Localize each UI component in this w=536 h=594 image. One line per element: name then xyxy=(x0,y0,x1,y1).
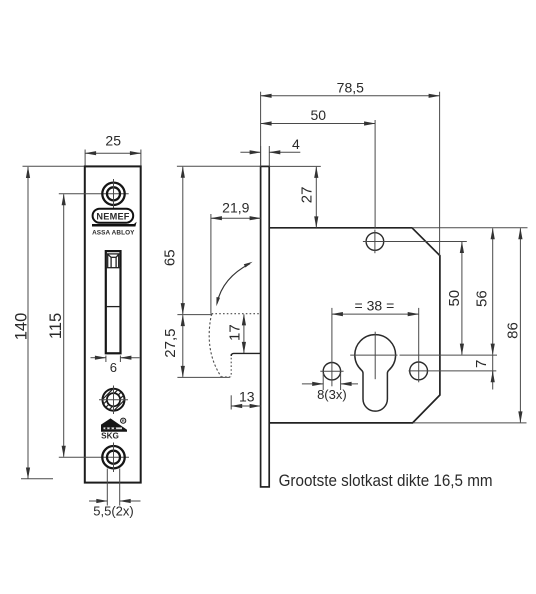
svg-text:4: 4 xyxy=(292,136,300,152)
svg-text:= 38 =: = 38 = xyxy=(355,297,395,313)
dimension 27 (backset top) xyxy=(269,166,321,227)
top fixing hole xyxy=(363,230,467,254)
dimension 86 xyxy=(413,228,527,423)
lock case outline xyxy=(269,228,440,423)
svg-text:56: 56 xyxy=(474,290,491,307)
dimension 17 xyxy=(243,314,245,353)
svg-text:27: 27 xyxy=(299,187,316,204)
svg-text:17: 17 xyxy=(227,324,244,341)
ASSA ABLOY logo bar xyxy=(92,222,137,237)
top screw hole xyxy=(102,179,124,209)
svg-text:21,9: 21,9 xyxy=(222,200,249,216)
faceplate strip side view xyxy=(261,166,270,487)
dimension 65 xyxy=(177,166,261,314)
swing arc double arrow xyxy=(216,262,252,306)
faceplate front outline xyxy=(85,166,141,482)
bottom screw hole xyxy=(102,443,124,473)
dimension 8(3x) xyxy=(302,373,358,390)
svg-text:86: 86 xyxy=(504,322,521,339)
dimension 115 (hole spacing) xyxy=(59,194,129,457)
dimension 13 xyxy=(231,395,260,409)
svg-text:6: 6 xyxy=(110,360,117,375)
euro cylinder profile xyxy=(350,332,397,411)
dimension 4 (faceplate thickness) xyxy=(240,146,300,166)
svg-text:8(3x): 8(3x) xyxy=(317,387,347,402)
dimension 7 xyxy=(492,355,494,389)
latch bolt slot outline xyxy=(106,251,121,353)
svg-text:13: 13 xyxy=(239,388,255,404)
right 8mm hole xyxy=(409,362,497,380)
dimension 56 xyxy=(413,228,528,355)
hatched cylinder hole xyxy=(99,386,128,415)
svg-text:115: 115 xyxy=(47,313,65,339)
dimension 140 (overall height) xyxy=(21,166,84,479)
NEMEF logo xyxy=(93,209,134,223)
latch bolt detail lines xyxy=(106,254,121,307)
left 8mm hole xyxy=(320,363,343,380)
svg-text:NEMEF: NEMEF xyxy=(96,212,129,222)
svg-text:65: 65 xyxy=(162,249,179,266)
dimension =38= xyxy=(332,308,419,386)
dimension 50 top xyxy=(261,120,376,228)
svg-text:50: 50 xyxy=(446,290,463,307)
dimension 6 (slot width) xyxy=(91,356,140,363)
dimension 78,5 xyxy=(261,92,440,256)
dimension 21,9 (bolt throw) xyxy=(211,214,261,314)
SKG logo xyxy=(101,418,127,440)
svg-text:SKG: SKG xyxy=(101,431,119,440)
svg-text:78,5: 78,5 xyxy=(337,79,364,95)
dimension 50 right xyxy=(400,242,498,355)
svg-text:7: 7 xyxy=(473,360,490,368)
svg-text:25: 25 xyxy=(105,133,121,149)
dimension 25 (top width) xyxy=(85,150,141,166)
dimension 5,5(2x) (screw hole diameter) xyxy=(89,469,141,506)
svg-text:27,5: 27,5 xyxy=(162,328,179,357)
hook slot solid step xyxy=(231,353,260,356)
svg-text:140: 140 xyxy=(13,313,31,341)
svg-text:R: R xyxy=(122,419,125,423)
svg-text:5,5(2x): 5,5(2x) xyxy=(93,504,133,519)
svg-text:Grootste slotkast dikte 16,5 m: Grootste slotkast dikte 16,5 mm xyxy=(279,471,493,490)
dimension 27,5 xyxy=(177,315,229,377)
svg-text:ASSA ABLOY: ASSA ABLOY xyxy=(92,229,135,236)
svg-text:50: 50 xyxy=(311,107,327,123)
hook bolt phantom outline xyxy=(209,314,260,377)
